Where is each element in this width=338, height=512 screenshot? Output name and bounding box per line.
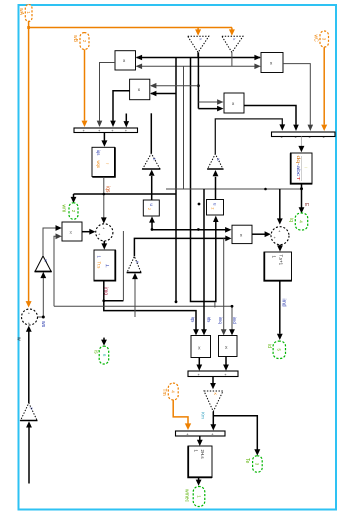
node x152 y229.5 (151, 228, 154, 231)
block sq2 u2 (143, 200, 159, 216)
wire GK out to bar4 (212, 412, 214, 425)
block PSIqs (92, 147, 115, 177)
node y306 x232 (231, 305, 234, 308)
wire y189 branch down x280 to sum C3 (279, 189, 281, 219)
svg-text:wA: wA (18, 8, 24, 16)
wire C2 out (103, 241, 105, 244)
svg-text:Km: Km (200, 412, 205, 419)
sum C2 (96, 224, 113, 241)
wire to product P3 in2 (198, 108, 218, 110)
svg-text:wqs: wqs (96, 161, 101, 168)
gain GK dashed (204, 391, 223, 412)
svg-text:Tr.s: Tr.s (97, 262, 102, 269)
wire riser x198 (197, 52, 199, 108)
wire Gb apex to bus K2 (231, 52, 233, 66)
product block P4 (232, 225, 252, 243)
svg-text:p: p (30, 408, 34, 410)
wire branch to outport Te (213, 416, 257, 450)
svg-text:w: w (15, 337, 21, 341)
outport Te (253, 456, 263, 472)
svg-text:iqs: iqs (96, 150, 101, 155)
svg-text:wm: wm (60, 205, 66, 213)
wire bus K1 y57.5 (137, 57, 261, 59)
wire In1 to junction (28, 21, 30, 28)
node x198 y85.5 (197, 84, 200, 87)
wire orange drop to gain Ga (197, 28, 199, 30)
wire bus y306 gray (54, 306, 232, 330)
node y194 junction (103, 193, 106, 196)
svg-text:wC: wC (313, 35, 319, 43)
product block BB (219, 336, 238, 357)
wire Ga apex to bus K1 (197, 52, 199, 57)
wire branch x223.7 down to BB (223, 238, 225, 330)
wire bar2 out (300, 137, 302, 147)
gain G6 dotted (142, 153, 160, 169)
sum bar1 (74, 128, 138, 133)
wire to product P3 in1 gray (198, 101, 218, 103)
wire to product P2 in1 gray (151, 85, 198, 87)
wire BB out (225, 357, 227, 365)
product block P3 (224, 93, 244, 113)
wire stub into outport is (103, 338, 105, 341)
sum bar3 (188, 371, 238, 377)
gain G5 dotted (207, 154, 223, 169)
wire y189 branch down x204 (203, 189, 205, 331)
sum bar2 (272, 132, 336, 140)
wire y194 down to outport wm (73, 194, 75, 198)
svg-text:imq: imq (218, 317, 223, 325)
wire P5 out to sum C2 (82, 231, 90, 233)
svg-text:k: k (198, 39, 202, 41)
svg-text:Te: Te (244, 458, 250, 464)
gain G4 dotted (127, 256, 142, 272)
wire bar3 out (212, 377, 214, 384)
svg-text:2: 2 (211, 208, 215, 210)
svg-text:imd: imd (280, 299, 286, 307)
product block P5 (62, 222, 82, 241)
svg-text:ids: ids (207, 317, 212, 323)
svg-text:iqs: iqs (104, 186, 110, 193)
svg-text:ws: ws (40, 321, 46, 328)
node x176 end (175, 300, 178, 303)
block sq1 u2 (207, 200, 224, 216)
outport wm (69, 203, 78, 219)
svg-text:2: 2 (147, 208, 151, 210)
wire into sq2 (151, 222, 153, 230)
wire P4 out to sum C3 (252, 233, 266, 235)
wire inertia out (198, 478, 200, 481)
svg-text:Tm: Tm (161, 389, 167, 396)
wire G5 out along y118 (215, 119, 282, 154)
sum bar4 (176, 431, 226, 436)
wire stub x215 (214, 302, 216, 308)
wire P1 out (100, 63, 116, 121)
svg-text:→: → (105, 161, 110, 166)
wire riser x190 to sq block (191, 58, 216, 302)
sum C1 (22, 309, 38, 326)
block dq2abc (291, 153, 313, 184)
svg-text:K: K (213, 393, 217, 396)
wire P2 out (113, 91, 130, 121)
svg-text:wmec: wmec (183, 489, 189, 503)
wire Tr1 out to busses (104, 281, 196, 331)
wire riser x182 gray (183, 66, 185, 189)
gain Ga dashed (188, 36, 209, 52)
product block P1 (115, 51, 136, 70)
node ws (42, 316, 45, 319)
svg-text:dq-abcT: dq-abcT (296, 156, 301, 182)
wire sumC1 out to gain G3 (38, 278, 44, 317)
wire bus y194 (74, 193, 177, 195)
svg-text:⊢: ⊢ (106, 263, 110, 269)
wire PSIqs out to sum C2 (103, 177, 105, 219)
wire bus K2 y66.3 gray (137, 65, 260, 67)
wire G4 in gray (134, 278, 136, 317)
wire orange drop to gain Gb (231, 28, 233, 30)
sum C3 (271, 227, 289, 245)
wire riser x54 to bus y306 (54, 236, 58, 306)
inport In3 (320, 31, 329, 47)
svg-text:imd: imd (232, 317, 237, 325)
inport In4 (168, 383, 178, 400)
outport id (273, 341, 285, 358)
node x198 y229.5 (197, 228, 200, 231)
wire bus y229.5 to product P4 (152, 229, 227, 231)
wire orange left drop (28, 28, 30, 302)
svg-text:T.s+1: T.s+1 (279, 255, 284, 266)
wire Tr2 out to outport id (279, 281, 281, 334)
svg-text:id: id (266, 344, 272, 348)
wire G3 out to product P5 in1 (43, 228, 58, 256)
node y189 x265 (264, 188, 267, 191)
svg-text:k: k (232, 39, 236, 41)
gain G2 dashed (20, 403, 37, 421)
gain G3 solid (35, 256, 52, 272)
outport iq (295, 213, 307, 230)
wire branch to riser x123 (104, 300, 124, 302)
wire P3b out (283, 64, 310, 125)
svg-text:─: ─ (304, 165, 308, 170)
wire P3 out (244, 106, 296, 125)
wire BA out (198, 358, 200, 365)
svg-text:2H.s: 2H.s (200, 450, 205, 460)
wire orange top bus (29, 27, 232, 29)
node y189 x301 (300, 187, 303, 190)
wire riser x176 (175, 58, 177, 302)
wire stub into bar1 (125, 114, 127, 122)
wire C3 out (279, 245, 281, 247)
wire In3 to sum bar2 (323, 47, 325, 124)
svg-text:wB: wB (72, 35, 78, 43)
wire into G2 (28, 427, 30, 483)
wire bar1 out (103, 133, 105, 142)
block Tr2 (264, 252, 292, 281)
block Tr1 (94, 250, 116, 281)
wire sq2 out to G6 (151, 176, 153, 200)
node J1 (27, 26, 30, 29)
wire bar4 out (199, 436, 201, 441)
block inertia (188, 446, 212, 478)
product block BA (191, 336, 211, 358)
inport In1 (25, 5, 32, 22)
svg-text:iqs: iqs (191, 317, 196, 323)
wire dq out (301, 184, 303, 208)
wire sq1 out to G5 (215, 177, 217, 200)
gain Gb dashed (222, 36, 243, 52)
wire T2 out to C1 (28, 331, 30, 403)
node out Tr1 (102, 299, 105, 302)
wire In2 to sum bar1 (84, 49, 86, 120)
wire G6 out dangling (150, 113, 152, 153)
product block P3b (261, 53, 283, 73)
wire branch to product P2 in2 (151, 93, 176, 95)
outport wm2 (193, 487, 205, 507)
outport is (99, 346, 109, 364)
svg-text:is: is (92, 350, 98, 354)
node x198 y204 (198, 203, 201, 206)
product block P2 (130, 79, 150, 100)
wire In4 to sum bar4 (173, 400, 188, 424)
inport In2 (80, 33, 89, 50)
wire G4 out bus y239 (134, 238, 226, 256)
svg-text:iq: iq (288, 218, 294, 222)
wire bus y189 gray (166, 188, 302, 190)
